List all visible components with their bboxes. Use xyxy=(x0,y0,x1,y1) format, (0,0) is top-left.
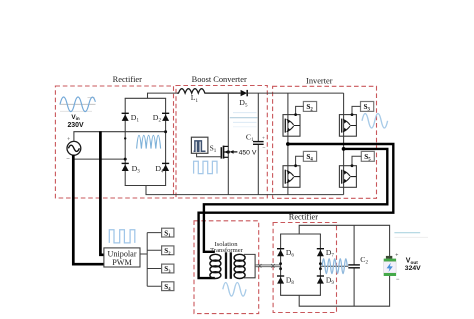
svg-text:−: − xyxy=(262,146,265,152)
annotation: 450 V arrow xyxy=(230,150,257,157)
node: AC minus to left branch junction xyxy=(124,158,127,161)
node: gate dot S4 xyxy=(294,164,297,167)
wire: bridge1 positive output up to boost xyxy=(148,93,177,98)
gate signal box S5 (inverter) xyxy=(361,151,374,162)
AC source V1 xyxy=(66,137,81,162)
wire: gate S2 xyxy=(296,106,304,114)
wire: PWM output trunk xyxy=(140,233,162,287)
icon: input sine waveform xyxy=(60,97,95,112)
capacitor C1 xyxy=(253,93,264,195)
wire: gate S5 xyxy=(352,156,361,166)
svg-text:Rectifier: Rectifier xyxy=(113,75,143,84)
wire: bridge1 top rail xyxy=(125,97,166,99)
block: gate pulse box xyxy=(191,137,208,153)
svg-text:230V: 230V xyxy=(67,122,83,129)
diode D9 xyxy=(317,276,324,284)
icon: ripple squiggle on output xyxy=(322,259,347,274)
wire: thick inverter output B (right midpoint) xyxy=(204,149,387,252)
wire: thick inverter output A (left midpoint) xyxy=(199,144,394,278)
node: left branch mid dot xyxy=(124,137,126,139)
icon: rectified waveform inside bridge xyxy=(137,135,161,148)
battery icon xyxy=(384,252,400,283)
dashed block: input rectifier box xyxy=(55,86,173,198)
transistor S3 box (top-right IGBT) xyxy=(339,115,356,137)
wire: output bridge bottom rail xyxy=(280,294,321,296)
dashed block: isolation transformer box xyxy=(194,221,259,314)
svg-text:+: + xyxy=(262,136,265,142)
icon: DC output mini-trace xyxy=(394,233,428,238)
diode D3 xyxy=(122,163,129,171)
wire: AC minus terminal to bridge left branch xyxy=(74,155,125,159)
wire: mosfet drain-source vertical xyxy=(227,93,229,195)
diode D5 xyxy=(241,90,248,96)
svg-text:Inverter: Inverter xyxy=(306,77,333,86)
icon: inverter output sine xyxy=(362,114,388,128)
wire: bridge1 right branch xyxy=(165,98,167,185)
diode D4 xyxy=(162,163,169,171)
transistor S5 box (bottom-right IGBT) xyxy=(339,166,356,188)
wire: bridge1 bottom rail xyxy=(125,185,166,187)
icon: boost gate square wave xyxy=(194,161,217,173)
icon: PWM pulse train above box xyxy=(109,230,135,243)
diode D2 xyxy=(162,113,169,121)
wire: gate S3 xyxy=(352,106,361,114)
node: gate dot S5 xyxy=(351,164,354,167)
icon: input sine waveform axis xyxy=(60,98,96,112)
node: gate dot S2 xyxy=(294,113,297,116)
wire: inverter left branch xyxy=(287,93,289,195)
gate signal box S2 (PWM out) xyxy=(162,246,174,255)
wire: gate lead from pulse box xyxy=(197,153,222,157)
gate signal box S2 (inverter) xyxy=(303,102,316,113)
icon: transformer sine xyxy=(223,283,246,297)
wire: thick sense line from AC hot to PWM xyxy=(100,131,104,255)
diode D1 xyxy=(122,113,129,121)
node: output bridge left dots xyxy=(279,262,282,270)
gate signal box S4 (PWM out) xyxy=(162,282,174,291)
inductor L1 xyxy=(177,89,241,93)
wire: secondary leads xyxy=(244,254,255,277)
dashed block: boost converter box xyxy=(176,86,267,199)
node: inverter right midpoint xyxy=(342,147,346,151)
node: mosfet drain dot xyxy=(227,150,230,153)
icon: DC level mini-trace in boost xyxy=(230,113,258,127)
gate signal box S4 (inverter) xyxy=(303,151,316,162)
wire: bridge mid to C2 xyxy=(320,265,348,267)
diode D7 xyxy=(317,249,324,257)
wire: thick sense line from AC neutral to PWM xyxy=(73,155,104,264)
transistor S4 box (bottom-left IGBT) xyxy=(283,166,300,188)
dashed block: inverter box xyxy=(273,86,377,198)
wire: inverter right branch xyxy=(343,93,345,195)
transistor S2 box (top-left IGBT) xyxy=(283,115,300,137)
gate signal box S1 (PWM out) xyxy=(162,228,174,237)
svg-text:+: + xyxy=(395,252,398,258)
transformer primary coil xyxy=(210,254,221,278)
wire: output bridge left branch xyxy=(280,234,282,295)
wire: secondary twisted pair to output bridge xyxy=(255,264,281,268)
block: Unipolar PWM xyxy=(104,248,140,267)
transistor S1 (boost MOSFET) xyxy=(221,146,228,159)
diode D8 xyxy=(277,276,284,284)
dashed block: output rectifier box xyxy=(273,223,336,313)
wire: common bottom rail xyxy=(146,186,344,195)
svg-text:Boost Converter: Boost Converter xyxy=(192,75,247,84)
svg-text:324V: 324V xyxy=(405,265,421,272)
wire: gate S4 xyxy=(296,156,304,165)
svg-text:450 V: 450 V xyxy=(239,150,257,157)
wire: boost/inverter top rail after D5 xyxy=(248,92,344,94)
svg-text:−: − xyxy=(66,155,70,162)
gate signal box S3 (inverter) xyxy=(361,102,374,113)
wire: output bridge top rail xyxy=(280,233,321,235)
wire: output bridge right branch xyxy=(319,234,321,295)
node: AC plus to right branch junction xyxy=(164,130,167,133)
node: gate dot S3 xyxy=(351,113,354,116)
svg-text:−: − xyxy=(396,277,400,283)
transformer core xyxy=(226,252,231,278)
node: inverter left midpoint xyxy=(286,142,290,146)
svg-text:Rectifier: Rectifier xyxy=(289,213,319,222)
label: Isolation Transformer xyxy=(210,241,244,254)
svg-text:+: + xyxy=(67,137,70,143)
gate signal box S3 (PWM out) xyxy=(162,264,174,273)
wire: output loop to battery xyxy=(299,225,389,306)
svg-text:Unipolar: Unipolar xyxy=(107,250,136,259)
node: output bridge right dots xyxy=(319,262,322,270)
svg-text:PWM: PWM xyxy=(112,258,132,267)
capacitor C2 xyxy=(348,225,360,306)
wire: bridge1 left branch xyxy=(124,98,126,185)
diode D6 xyxy=(277,249,284,257)
transformer secondary coil xyxy=(234,254,245,278)
wire: AC plus terminal to bridge right branch xyxy=(74,132,166,142)
